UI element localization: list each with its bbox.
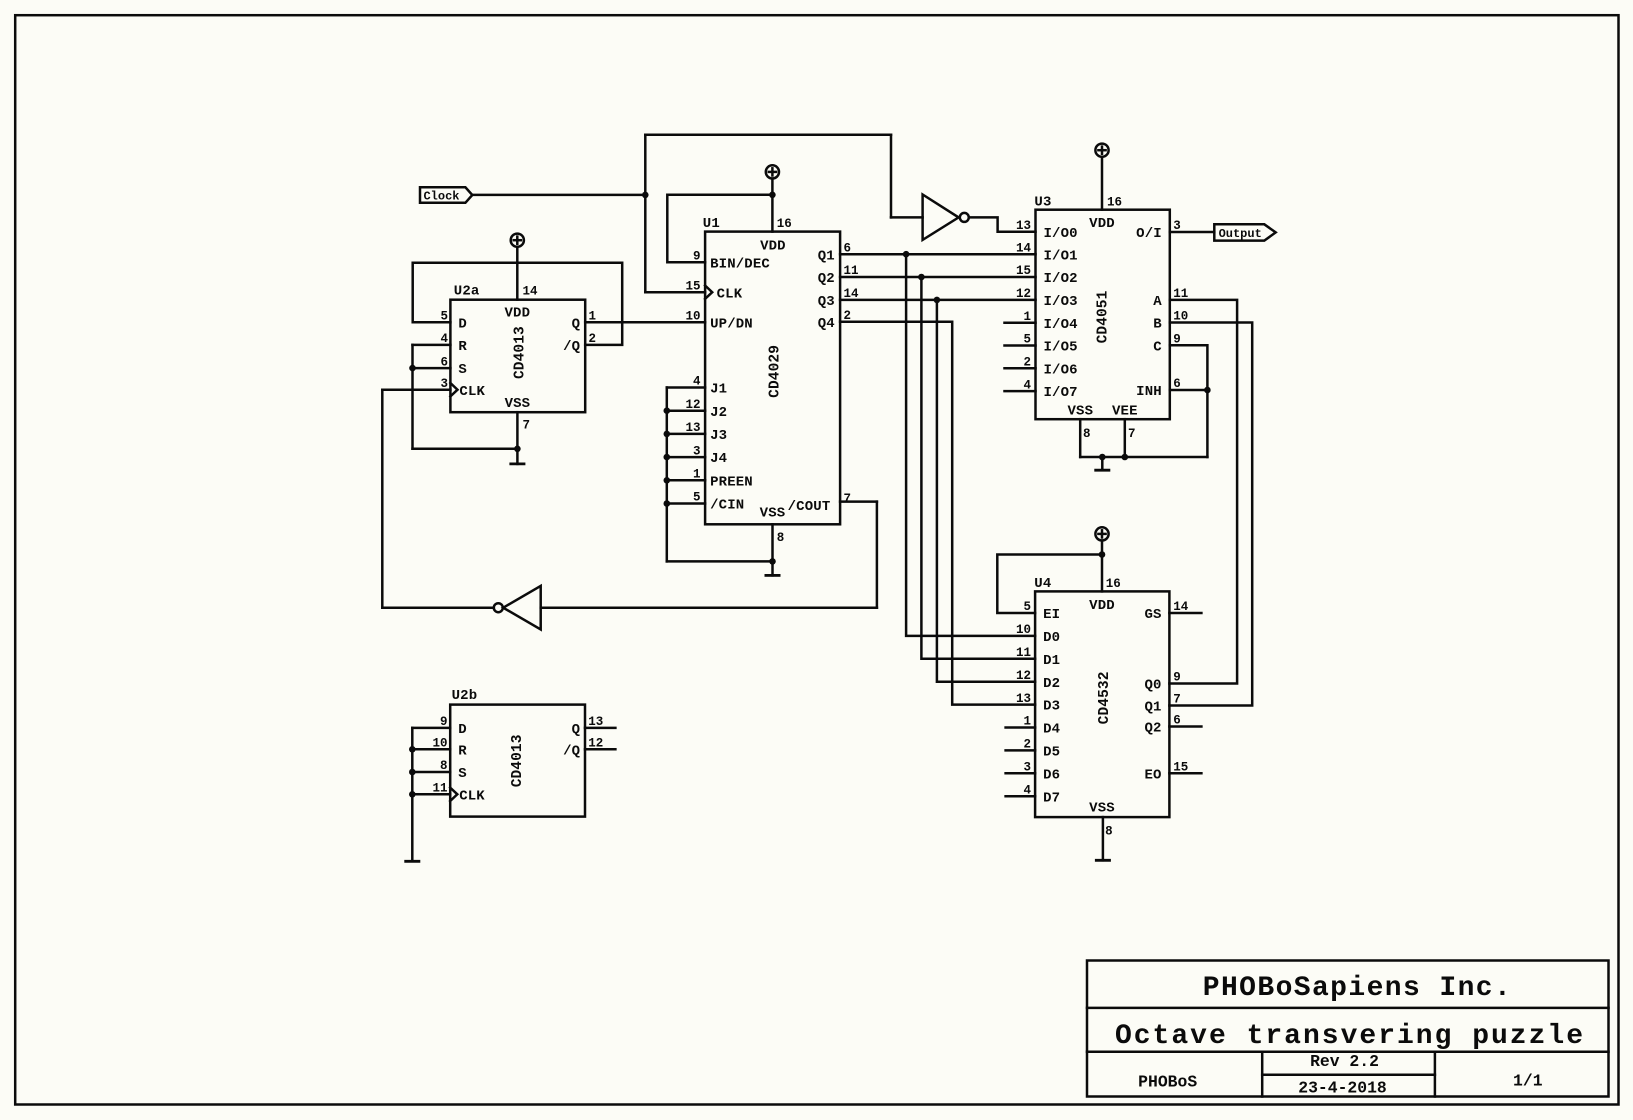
svg-text:GS: GS bbox=[1144, 607, 1161, 623]
IC U1 CD4029 body bbox=[705, 232, 840, 525]
svg-text:Octave transvering puzzle: Octave transvering puzzle bbox=[1115, 1021, 1585, 1052]
svg-text:Q3: Q3 bbox=[818, 294, 835, 310]
svg-text:R: R bbox=[458, 743, 467, 759]
svg-text:16: 16 bbox=[1106, 577, 1121, 591]
svg-text:U2a: U2a bbox=[454, 283, 480, 299]
svg-text:13: 13 bbox=[685, 421, 700, 435]
svg-text:6: 6 bbox=[1173, 377, 1181, 391]
wire U4 D7 stub bbox=[1006, 795, 1036, 798]
junction clock net bbox=[642, 192, 649, 199]
wire U4 Q2 stub bbox=[1169, 725, 1201, 728]
wire U3 I/O7 stub bbox=[1005, 390, 1036, 393]
svg-text:U1: U1 bbox=[703, 216, 720, 232]
U1 pin names bbox=[710, 238, 835, 521]
ground below U2b bbox=[404, 728, 420, 861]
svg-text:C: C bbox=[1153, 339, 1162, 355]
power symbol above U2a bbox=[511, 234, 524, 300]
svg-text:/COUT: /COUT bbox=[788, 499, 831, 515]
svg-text:6: 6 bbox=[1173, 714, 1181, 728]
svg-text:D0: D0 bbox=[1043, 630, 1060, 646]
svg-text:5: 5 bbox=[440, 310, 448, 324]
svg-text:2: 2 bbox=[589, 332, 597, 346]
U2a pin names bbox=[458, 305, 580, 412]
svg-text:Clock: Clock bbox=[423, 189, 459, 203]
svg-text:J3: J3 bbox=[710, 428, 727, 444]
svg-text:9: 9 bbox=[1173, 671, 1181, 685]
svg-text:3: 3 bbox=[693, 444, 701, 458]
ground below U3 bbox=[1094, 457, 1110, 470]
svg-text:1/1: 1/1 bbox=[1513, 1072, 1543, 1091]
wire U2a R pin bbox=[413, 344, 451, 347]
svg-text:9: 9 bbox=[1173, 332, 1181, 346]
svg-text:Q2: Q2 bbox=[818, 271, 835, 287]
svg-text:4: 4 bbox=[693, 375, 701, 389]
svg-text:3: 3 bbox=[1173, 219, 1181, 233]
wire U1 J-input vertical bbox=[666, 388, 669, 562]
svg-text:VDD: VDD bbox=[1089, 598, 1115, 614]
wire Q4 run bbox=[840, 322, 1035, 705]
wire U2a reset net to VSS bbox=[413, 448, 518, 451]
svg-text:CD4051: CD4051 bbox=[1096, 290, 1112, 343]
wire U3 A to U4 Q0 bbox=[1169, 300, 1237, 684]
svg-text:13: 13 bbox=[1016, 692, 1031, 706]
junction U2b R bbox=[409, 746, 416, 753]
svg-text:D4: D4 bbox=[1043, 722, 1060, 738]
wire down to inverter input bbox=[890, 135, 893, 218]
svg-text:PHOBoSapiens Inc.: PHOBoSapiens Inc. bbox=[1203, 973, 1512, 1004]
wire U2b CLK pin bbox=[412, 793, 450, 796]
junction U2b S bbox=[409, 769, 416, 776]
wire U4 EO stub bbox=[1169, 772, 1201, 775]
wire Clock flag to junction bbox=[472, 194, 645, 197]
svg-text:Rev 2.2: Rev 2.2 bbox=[1310, 1052, 1379, 1071]
wire Q3 to I/O3 bbox=[840, 299, 1035, 302]
svg-text:14: 14 bbox=[1016, 241, 1032, 255]
wire U2b /Q stub bbox=[585, 748, 615, 751]
svg-text:I/O4: I/O4 bbox=[1044, 317, 1078, 333]
svg-text:Q: Q bbox=[572, 722, 581, 738]
svg-text:PHOBoS: PHOBoS bbox=[1138, 1072, 1197, 1091]
svg-text:12: 12 bbox=[685, 398, 700, 412]
svg-text:CD4029: CD4029 bbox=[767, 345, 783, 398]
net flag Output bbox=[1214, 224, 1275, 240]
svg-text:7: 7 bbox=[1173, 693, 1181, 707]
svg-text:VSS: VSS bbox=[505, 396, 531, 412]
svg-text:VDD: VDD bbox=[760, 238, 786, 254]
wire clock junction to U1 CLK pin bbox=[645, 291, 705, 294]
junction U2b CLK bbox=[409, 791, 416, 798]
svg-text:EI: EI bbox=[1043, 607, 1060, 623]
wire U2a R/S vertical bbox=[411, 345, 414, 449]
U3 pin numbers bbox=[1016, 195, 1188, 440]
svg-text:8: 8 bbox=[777, 531, 785, 545]
svg-text:1: 1 bbox=[693, 468, 701, 482]
svg-text:12: 12 bbox=[588, 737, 603, 751]
svg-text:15: 15 bbox=[1016, 264, 1031, 278]
wire into inverter U5a input bbox=[891, 216, 923, 219]
wire U3 INH pin bbox=[1170, 389, 1208, 392]
junction U4 VDD bbox=[1099, 551, 1106, 558]
junction U3 ground bbox=[1099, 454, 1106, 461]
power symbol above U4 bbox=[1095, 527, 1108, 591]
svg-text:VDD: VDD bbox=[504, 305, 530, 321]
svg-text:PREEN: PREEN bbox=[710, 474, 753, 490]
power symbol above U1 bbox=[766, 165, 779, 231]
svg-text:I/O7: I/O7 bbox=[1044, 385, 1078, 401]
junction U1 J net bbox=[664, 454, 671, 461]
wire U1 J stub at y=503.5 bbox=[667, 502, 705, 505]
svg-text:U4: U4 bbox=[1034, 576, 1051, 592]
svg-text:CLK: CLK bbox=[459, 788, 485, 804]
wire U2a S pin bbox=[413, 367, 451, 370]
wire clock top run to inverter bbox=[645, 134, 891, 137]
wire VDD branch to BIN/DEC bbox=[667, 195, 772, 262]
inverter U5a bbox=[923, 195, 969, 240]
junction U1 J net bbox=[664, 407, 671, 414]
svg-text:16: 16 bbox=[777, 217, 792, 231]
wire U4 EI to VDD bbox=[997, 555, 1102, 614]
wire U1 J stub at y=433.9 bbox=[667, 433, 705, 436]
svg-text:CLK: CLK bbox=[717, 286, 743, 302]
wire Q2 to I/O2 bbox=[840, 276, 1035, 279]
wire U4 D4 stub bbox=[1006, 726, 1036, 729]
svg-text:U3: U3 bbox=[1034, 195, 1051, 211]
svg-text:B: B bbox=[1153, 317, 1162, 333]
wire U2b Q stub bbox=[585, 727, 615, 730]
U2b pin names bbox=[458, 722, 580, 804]
svg-text:8: 8 bbox=[1083, 427, 1091, 441]
wire U1 J stub at y=480.3 bbox=[667, 479, 705, 482]
IC U2b CD4013 body bbox=[450, 705, 585, 817]
svg-text:I/O1: I/O1 bbox=[1044, 248, 1078, 264]
wire inverter U5b output run bbox=[382, 606, 494, 609]
svg-text:9: 9 bbox=[440, 715, 448, 729]
ground below U4 bbox=[1095, 817, 1111, 860]
svg-text:9: 9 bbox=[693, 250, 701, 264]
svg-text:CD4532: CD4532 bbox=[1097, 671, 1113, 724]
svg-text:14: 14 bbox=[523, 284, 539, 298]
U3 pin names bbox=[1044, 216, 1163, 420]
svg-text:7: 7 bbox=[523, 419, 531, 433]
svg-text:D: D bbox=[458, 316, 467, 332]
wire U1 J net to VSS bbox=[667, 560, 773, 563]
wire U3 C to INH tie bbox=[1170, 345, 1208, 457]
svg-text:Q2: Q2 bbox=[1144, 721, 1161, 737]
wire U3 VSS pin bbox=[1079, 419, 1082, 457]
svg-text:D1: D1 bbox=[1043, 653, 1060, 669]
svg-text:4: 4 bbox=[1023, 378, 1031, 392]
wire U3 VSS/VEE ground run bbox=[1080, 456, 1207, 459]
wire U1 J stub at y=457.1 bbox=[667, 456, 705, 459]
svg-text:2: 2 bbox=[1023, 356, 1031, 370]
svg-text:D3: D3 bbox=[1043, 699, 1060, 715]
wire U2b D pin bbox=[412, 727, 450, 730]
svg-text:15: 15 bbox=[685, 279, 700, 293]
svg-text:I/O5: I/O5 bbox=[1044, 340, 1078, 356]
svg-text:11: 11 bbox=[844, 264, 859, 278]
wire U3 I/O4 stub bbox=[1005, 321, 1036, 324]
svg-text:R: R bbox=[458, 339, 467, 355]
title block bbox=[1087, 961, 1609, 1097]
junction Q3 bbox=[934, 297, 941, 304]
wire U2b S pin bbox=[412, 771, 450, 774]
svg-text:10: 10 bbox=[685, 310, 700, 324]
svg-text:EO: EO bbox=[1144, 767, 1161, 783]
svg-text:Q1: Q1 bbox=[818, 248, 835, 264]
wire clock vertical to U1 CLK bbox=[644, 135, 647, 292]
svg-text:/Q: /Q bbox=[563, 339, 580, 355]
svg-text:I/O2: I/O2 bbox=[1044, 271, 1078, 287]
svg-text:/Q: /Q bbox=[563, 743, 580, 759]
wire U4 GS stub bbox=[1169, 612, 1201, 615]
svg-text:10: 10 bbox=[1016, 623, 1031, 637]
junction U1 J net bbox=[664, 431, 671, 438]
svg-text:2: 2 bbox=[1023, 738, 1031, 752]
svg-text:15: 15 bbox=[1173, 761, 1188, 775]
svg-text:13: 13 bbox=[1016, 219, 1031, 233]
svg-text:D6: D6 bbox=[1043, 767, 1060, 783]
svg-text:5: 5 bbox=[1023, 600, 1031, 614]
wire feedback vertical bbox=[876, 502, 879, 608]
svg-text:D: D bbox=[458, 722, 467, 738]
wire U3 O/I to Output flag bbox=[1170, 231, 1215, 234]
wire U2a CLK pin bbox=[382, 388, 450, 391]
svg-text:VEE: VEE bbox=[1112, 404, 1138, 420]
junction U1 J net bbox=[664, 500, 671, 507]
svg-text:6: 6 bbox=[440, 355, 448, 369]
U2b pin numbers bbox=[432, 715, 603, 795]
wire U2a Q to U1 UP/DN bbox=[585, 321, 705, 324]
svg-text:Q: Q bbox=[572, 316, 581, 332]
wire long vertical to inverter U5b output bbox=[381, 390, 384, 608]
svg-text:1: 1 bbox=[589, 310, 597, 324]
junction U3 VEE bbox=[1122, 454, 1129, 461]
wire Q3 branch to U4 D2 bbox=[937, 300, 1035, 682]
wire Q1 to I/O1 bbox=[840, 253, 1035, 256]
svg-text:3: 3 bbox=[1023, 761, 1031, 775]
svg-text:I/O3: I/O3 bbox=[1044, 294, 1078, 310]
wire U3 B to U4 Q1 bbox=[1169, 323, 1252, 706]
svg-text:D7: D7 bbox=[1043, 790, 1060, 806]
wire U3 VEE pin bbox=[1124, 419, 1127, 457]
svg-text:3: 3 bbox=[440, 377, 448, 391]
svg-text:1: 1 bbox=[1023, 310, 1031, 324]
wire U4 D5 stub bbox=[1006, 749, 1036, 752]
svg-text:16: 16 bbox=[1107, 195, 1122, 209]
wire U2a /Q feedback loop to D bbox=[413, 263, 623, 345]
svg-text:S: S bbox=[458, 362, 467, 378]
svg-text:I/O0: I/O0 bbox=[1044, 226, 1078, 242]
U4 pin numbers bbox=[1016, 577, 1189, 838]
wire U1 J stub at y=410.7 bbox=[667, 409, 705, 412]
svg-text:7: 7 bbox=[1128, 427, 1136, 441]
junction INH bbox=[1204, 387, 1211, 394]
svg-text:14: 14 bbox=[844, 287, 860, 301]
svg-text:Q0: Q0 bbox=[1144, 678, 1161, 694]
svg-text:12: 12 bbox=[1016, 287, 1031, 301]
wire U1 J stub at y=387.5 bbox=[667, 386, 705, 389]
U1 pin numbers bbox=[685, 217, 859, 545]
wire U3 I/O6 stub bbox=[1005, 367, 1036, 370]
svg-text:11: 11 bbox=[432, 782, 447, 796]
svg-text:23-4-2018: 23-4-2018 bbox=[1298, 1078, 1387, 1097]
svg-text:13: 13 bbox=[588, 715, 603, 729]
svg-text:CLK: CLK bbox=[459, 384, 485, 400]
svg-text:UP/DN: UP/DN bbox=[710, 316, 753, 332]
wire Q1 branch to U4 D0 bbox=[906, 254, 1035, 636]
svg-text:4: 4 bbox=[440, 332, 448, 346]
svg-text:VSS: VSS bbox=[1067, 404, 1093, 420]
U4 pin names bbox=[1043, 598, 1162, 816]
net flag Clock bbox=[420, 187, 472, 203]
svg-text:J1: J1 bbox=[710, 382, 727, 398]
junction U1 J net bbox=[664, 477, 671, 484]
wire U2b R pin bbox=[412, 748, 450, 751]
junction on U1 VDD wire bbox=[769, 192, 776, 199]
svg-text:8: 8 bbox=[1105, 824, 1113, 838]
IC U3 CD4051 body bbox=[1036, 210, 1170, 420]
IC U4 CD4532 body bbox=[1035, 591, 1169, 817]
junction U2a S bbox=[409, 365, 416, 372]
svg-text:D5: D5 bbox=[1043, 745, 1060, 761]
svg-text:A: A bbox=[1153, 294, 1162, 310]
svg-text:10: 10 bbox=[432, 737, 447, 751]
inverter U5b bbox=[494, 586, 541, 630]
svg-text:/CIN: /CIN bbox=[710, 498, 744, 514]
svg-text:10: 10 bbox=[1173, 310, 1188, 324]
svg-text:CD4013: CD4013 bbox=[510, 734, 526, 787]
junction Q1 bbox=[903, 251, 910, 258]
junction U1 VSS net bbox=[769, 558, 776, 565]
svg-text:S: S bbox=[458, 766, 467, 782]
svg-text:8: 8 bbox=[440, 759, 448, 773]
svg-text:4: 4 bbox=[1023, 783, 1031, 797]
wire U3 I/O5 stub bbox=[1005, 344, 1036, 347]
svg-text:14: 14 bbox=[1173, 600, 1189, 614]
ground below U2a bbox=[509, 412, 525, 464]
svg-text:Q4: Q4 bbox=[818, 316, 835, 332]
svg-text:Q1: Q1 bbox=[1144, 700, 1161, 716]
wire Q2 branch to U4 D1 bbox=[921, 277, 1035, 659]
svg-text:Output: Output bbox=[1219, 227, 1262, 241]
svg-text:I/O6: I/O6 bbox=[1044, 362, 1078, 378]
wire inverter U5b input run bbox=[541, 606, 877, 609]
svg-text:6: 6 bbox=[844, 241, 852, 255]
svg-text:5: 5 bbox=[1023, 333, 1031, 347]
junction U2a VSS net bbox=[514, 446, 521, 453]
svg-text:11: 11 bbox=[1016, 646, 1031, 660]
svg-text:11: 11 bbox=[1173, 287, 1188, 301]
svg-text:2: 2 bbox=[844, 309, 852, 323]
svg-text:BIN/DEC: BIN/DEC bbox=[710, 256, 770, 272]
U2a pin numbers bbox=[440, 284, 596, 432]
junction Q2 bbox=[918, 274, 925, 281]
svg-text:VSS: VSS bbox=[1089, 800, 1115, 816]
svg-text:INH: INH bbox=[1136, 384, 1162, 400]
svg-text:D2: D2 bbox=[1043, 676, 1060, 692]
svg-text:U2b: U2b bbox=[452, 688, 478, 704]
svg-text:CD4013: CD4013 bbox=[513, 326, 529, 379]
svg-text:5: 5 bbox=[693, 491, 701, 505]
svg-text:7: 7 bbox=[844, 492, 852, 506]
svg-text:VSS: VSS bbox=[760, 505, 786, 521]
IC U2a CD4013 body bbox=[450, 300, 585, 413]
wire U4 D6 stub bbox=[1006, 772, 1036, 775]
wire inverter output to U3 I/O0 bbox=[969, 217, 1036, 231]
svg-text:VDD: VDD bbox=[1089, 216, 1115, 232]
svg-text:1: 1 bbox=[1023, 715, 1031, 729]
svg-text:J2: J2 bbox=[710, 405, 727, 421]
svg-text:O/I: O/I bbox=[1136, 226, 1162, 242]
ground below U1 bbox=[765, 524, 781, 575]
wire U1 /COUT pin bbox=[840, 500, 877, 503]
power symbol above U3 bbox=[1095, 144, 1108, 210]
svg-text:12: 12 bbox=[1016, 669, 1031, 683]
svg-text:J4: J4 bbox=[710, 451, 727, 467]
